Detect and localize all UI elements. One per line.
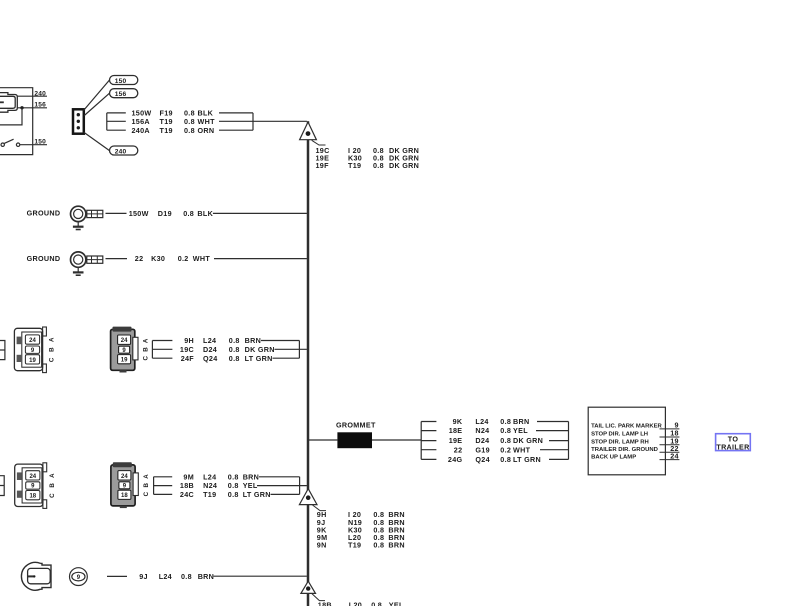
wire row 24C T19 0.8 LT GRN: [180, 490, 271, 499]
svg-text:9J: 9J: [139, 572, 148, 581]
svg-text:0.8: 0.8: [183, 209, 194, 218]
ground G1 ring terminal: [71, 206, 103, 229]
connector C100 3-pin: [73, 109, 84, 133]
svg-text:0.8: 0.8: [500, 417, 511, 426]
svg-text:0.8: 0.8: [181, 572, 192, 581]
svg-text:D24: D24: [203, 345, 217, 354]
svg-text:BRN: BRN: [243, 472, 259, 481]
svg-text:19: 19: [121, 358, 128, 364]
svg-text:156: 156: [115, 91, 127, 98]
table row BACK UP LAMP 24: [591, 451, 679, 460]
svg-text:Q24: Q24: [475, 455, 490, 464]
internal wire from junction: [0, 108, 22, 125]
svg-text:A: A: [49, 337, 56, 342]
svg-text:T19: T19: [348, 161, 361, 170]
svg-text:0.8: 0.8: [228, 490, 239, 499]
svg-text:DK GRN: DK GRN: [513, 436, 543, 445]
svg-text:0.8: 0.8: [373, 541, 384, 550]
svg-text:0.8: 0.8: [228, 472, 239, 481]
svg-text:A: A: [49, 473, 56, 478]
svg-text:0.8: 0.8: [373, 161, 384, 170]
svg-text:24G: 24G: [448, 455, 463, 464]
license lamp bulb 9: [70, 568, 88, 586]
svg-text:TRAILER DIR. GROUND: TRAILER DIR. GROUND: [591, 447, 658, 453]
S2 circuit list row 9N: [317, 541, 405, 550]
svg-text:156: 156: [34, 101, 46, 108]
svg-text:B: B: [49, 483, 56, 488]
ground G2 label: [27, 254, 61, 263]
C203 pin letters A B C: [49, 473, 56, 498]
bundle B left bracket: [154, 477, 173, 495]
svg-text:LT GRN: LT GRN: [243, 490, 271, 499]
trailer bundle right merge wires: [536, 422, 569, 460]
svg-text:YEL: YEL: [243, 481, 258, 490]
svg-text:9K: 9K: [453, 417, 463, 426]
svg-text:19: 19: [29, 358, 36, 364]
wire row 18E N24 0.8 YEL: [449, 426, 528, 435]
S2 circuit list row 9H: [317, 510, 405, 519]
svg-text:GROUND: GROUND: [27, 254, 61, 263]
svg-text:L24: L24: [475, 417, 488, 426]
svg-text:DK GRN: DK GRN: [245, 345, 275, 354]
svg-text:18B: 18B: [318, 601, 332, 606]
svg-text:L20: L20: [349, 601, 362, 606]
C204 pin letters A B C: [143, 474, 150, 497]
svg-text:24: 24: [121, 474, 128, 480]
svg-text:WHT: WHT: [198, 117, 216, 126]
bundle B right merge wires: [257, 477, 307, 495]
svg-text:BRN: BRN: [245, 336, 261, 345]
oval label 150: [110, 76, 138, 85]
ground G2 ring terminal: [71, 252, 103, 275]
svg-text:D19: D19: [158, 209, 172, 218]
svg-text:18: 18: [29, 494, 36, 500]
wire row 150W F19 0.8 BLK: [132, 109, 214, 118]
bundle A left bracket: [152, 341, 172, 359]
svg-text:0.8: 0.8: [500, 455, 511, 464]
svg-text:24: 24: [670, 451, 679, 460]
svg-text:18: 18: [121, 493, 128, 499]
svg-text:STOP DIR. LAMP RH: STOP DIR. LAMP RH: [591, 440, 649, 446]
svg-text:BACK UP LAMP: BACK UP LAMP: [591, 454, 636, 460]
license lamp socket: [21, 562, 51, 590]
svg-text:9M: 9M: [183, 472, 194, 481]
S2 circuit list row 9J: [317, 518, 405, 527]
svg-text:A: A: [143, 338, 150, 343]
leader to oval 240: [84, 132, 110, 150]
leader to oval 156: [84, 93, 109, 115]
S3 circuit list row 18B (cut off): [318, 601, 404, 606]
svg-text:YEL: YEL: [389, 601, 404, 606]
wire 150 stub: [20, 138, 47, 145]
svg-text:0.2: 0.2: [178, 254, 189, 263]
wire row 9M L24 0.8 BRN: [183, 472, 259, 481]
C202 pin letters A B C: [143, 338, 150, 360]
svg-text:156A: 156A: [132, 117, 150, 126]
wire row 24G Q24 0.8 LT GRN: [448, 455, 541, 464]
S1 circuit list row 19E: [316, 153, 420, 162]
svg-text:18B: 18B: [180, 481, 194, 490]
svg-text:BRN: BRN: [198, 572, 214, 581]
svg-text:T19: T19: [203, 490, 216, 499]
svg-text:0.8: 0.8: [229, 354, 240, 363]
table row STOP DIR. LAMP RH 19: [591, 437, 679, 446]
splice S3 triangle: [301, 581, 325, 600]
wire row 22 G19 0.2 WHT: [454, 445, 531, 454]
C201 pin letters A B C: [49, 337, 56, 362]
wire row 19E D24 0.8 DK GRN: [449, 436, 543, 445]
svg-text:24F: 24F: [181, 354, 195, 363]
svg-text:GROMMET: GROMMET: [336, 421, 376, 430]
S1 circuit list row 19C: [316, 146, 420, 155]
bulb socket inside assembly: [0, 93, 17, 113]
svg-text:150: 150: [115, 78, 127, 85]
svg-text:TRAILER: TRAILER: [716, 443, 750, 452]
S2 circuit list row 9K: [317, 525, 405, 534]
svg-text:ORN: ORN: [198, 126, 215, 135]
svg-text:24: 24: [29, 474, 36, 480]
svg-text:C: C: [49, 357, 56, 362]
svg-text:TAIL LIC. PARK MARKER: TAIL LIC. PARK MARKER: [591, 424, 662, 430]
splice S1 triangle: [300, 122, 326, 145]
table row TAIL LIC. PARK MARKER 9: [591, 421, 679, 430]
wire row 240A T19 0.8 ORN: [132, 126, 215, 135]
svg-text:0.8: 0.8: [229, 336, 240, 345]
svg-text:LT GRN: LT GRN: [513, 455, 541, 464]
svg-text:T19: T19: [160, 117, 173, 126]
svg-text:DK GRN: DK GRN: [389, 161, 419, 170]
svg-text:0.8: 0.8: [500, 436, 511, 445]
TO TRAILER hyperlink box: [716, 434, 751, 452]
wire 156 stub: [17, 101, 47, 109]
svg-text:BRN: BRN: [513, 417, 529, 426]
svg-text:GROUND: GROUND: [27, 208, 61, 217]
svg-text:T19: T19: [160, 126, 173, 135]
svg-text:B: B: [49, 347, 56, 352]
top bundle right merge wires: [219, 113, 307, 130]
partial mating connector lower (cut off): [0, 476, 4, 496]
oval label 240: [110, 146, 138, 155]
svg-text:9N: 9N: [317, 541, 327, 550]
svg-text:Q24: Q24: [203, 354, 218, 363]
svg-text:K30: K30: [151, 254, 165, 263]
svg-text:18E: 18E: [449, 426, 463, 435]
connector C201 white 24/9/19: [14, 327, 46, 373]
partial mating connector upper (cut off): [0, 341, 5, 360]
table row TRAILER DIR. GROUND 22: [591, 444, 679, 453]
svg-text:19F: 19F: [316, 161, 330, 170]
svg-text:STOP DIR. LAMP LH: STOP DIR. LAMP LH: [591, 432, 648, 438]
svg-text:24C: 24C: [180, 490, 194, 499]
svg-text:0.2: 0.2: [500, 445, 511, 454]
leader to oval 150: [84, 80, 110, 111]
svg-text:0.8: 0.8: [184, 117, 195, 126]
table row STOP DIR. LAMP LH 18: [591, 429, 679, 438]
svg-text:9H: 9H: [184, 336, 194, 345]
switch contacts: [1, 139, 20, 146]
wire row 24F Q24 0.8 LT GRN: [181, 354, 273, 363]
svg-text:L24: L24: [203, 336, 216, 345]
connector C202 dark 24/9/19: [111, 327, 138, 373]
svg-text:BRN: BRN: [388, 541, 404, 550]
svg-text:BLK: BLK: [197, 209, 213, 218]
connector C203 white 24/9/18: [15, 463, 47, 509]
ground G1 label: [27, 208, 61, 217]
svg-text:WHT: WHT: [193, 254, 211, 263]
svg-text:G19: G19: [475, 445, 490, 454]
svg-text:19C: 19C: [180, 345, 194, 354]
svg-text:B: B: [143, 347, 150, 352]
wire 9J L24 0.8 BRN: [107, 572, 307, 581]
top bundle left bracket: [107, 113, 126, 130]
svg-text:C: C: [49, 493, 56, 498]
connector C204 dark 24/9/18: [111, 462, 138, 508]
wire row 156A T19 0.8 WHT: [132, 117, 216, 126]
wire 22 K30 0.2 WHT to ground: [106, 254, 307, 263]
svg-text:N24: N24: [475, 426, 489, 435]
trailer connector table box: [588, 407, 665, 475]
svg-text:150W: 150W: [129, 209, 149, 218]
svg-text:24: 24: [29, 338, 36, 344]
svg-text:22: 22: [135, 254, 144, 263]
svg-text:24: 24: [121, 338, 128, 344]
wire row 9H L24 0.8 BRN: [184, 336, 261, 345]
svg-text:N24: N24: [203, 481, 217, 490]
S2 circuit list row 9M: [317, 533, 405, 542]
svg-text:0.8: 0.8: [228, 481, 239, 490]
svg-text:WHT: WHT: [513, 445, 531, 454]
oval label 156: [110, 89, 138, 98]
svg-text:YEL: YEL: [513, 426, 528, 435]
svg-text:T19: T19: [348, 541, 361, 550]
svg-text:A: A: [143, 474, 150, 479]
wire row 9K L24 0.8 BRN: [453, 417, 530, 426]
svg-text:19E: 19E: [449, 436, 463, 445]
svg-text:0.8: 0.8: [229, 345, 240, 354]
svg-text:240: 240: [115, 148, 127, 155]
svg-text:9: 9: [77, 575, 81, 581]
svg-text:240A: 240A: [132, 126, 150, 135]
wire 150W D19 0.8 BLK to ground: [106, 209, 307, 218]
trunk wire: [307, 121, 310, 606]
svg-text:150: 150: [34, 138, 46, 145]
trailer bundle left bracket: [421, 422, 436, 460]
svg-text:0.8: 0.8: [500, 426, 511, 435]
svg-text:C: C: [143, 491, 150, 496]
svg-text:L24: L24: [159, 572, 172, 581]
svg-text:L24: L24: [203, 472, 216, 481]
svg-text:D24: D24: [475, 436, 489, 445]
svg-text:C: C: [143, 356, 150, 361]
svg-text:240: 240: [34, 90, 46, 97]
taillamp switch assembly box (cut off at left edge): [0, 88, 33, 155]
svg-text:22: 22: [454, 445, 463, 454]
bundle A right merge wires: [261, 341, 307, 359]
grommet: [309, 421, 421, 448]
svg-text:0.8: 0.8: [184, 126, 195, 135]
wire row 18B N24 0.8 YEL: [180, 481, 258, 490]
svg-text:B: B: [143, 483, 150, 488]
splice S2 triangle: [299, 489, 326, 511]
svg-text:LT GRN: LT GRN: [245, 354, 273, 363]
S1 circuit list row 19F: [316, 161, 420, 170]
svg-text:0.8: 0.8: [371, 601, 382, 606]
wire row 19C D24 0.8 DK GRN: [180, 345, 275, 354]
wire 240 stub: [17, 90, 47, 97]
